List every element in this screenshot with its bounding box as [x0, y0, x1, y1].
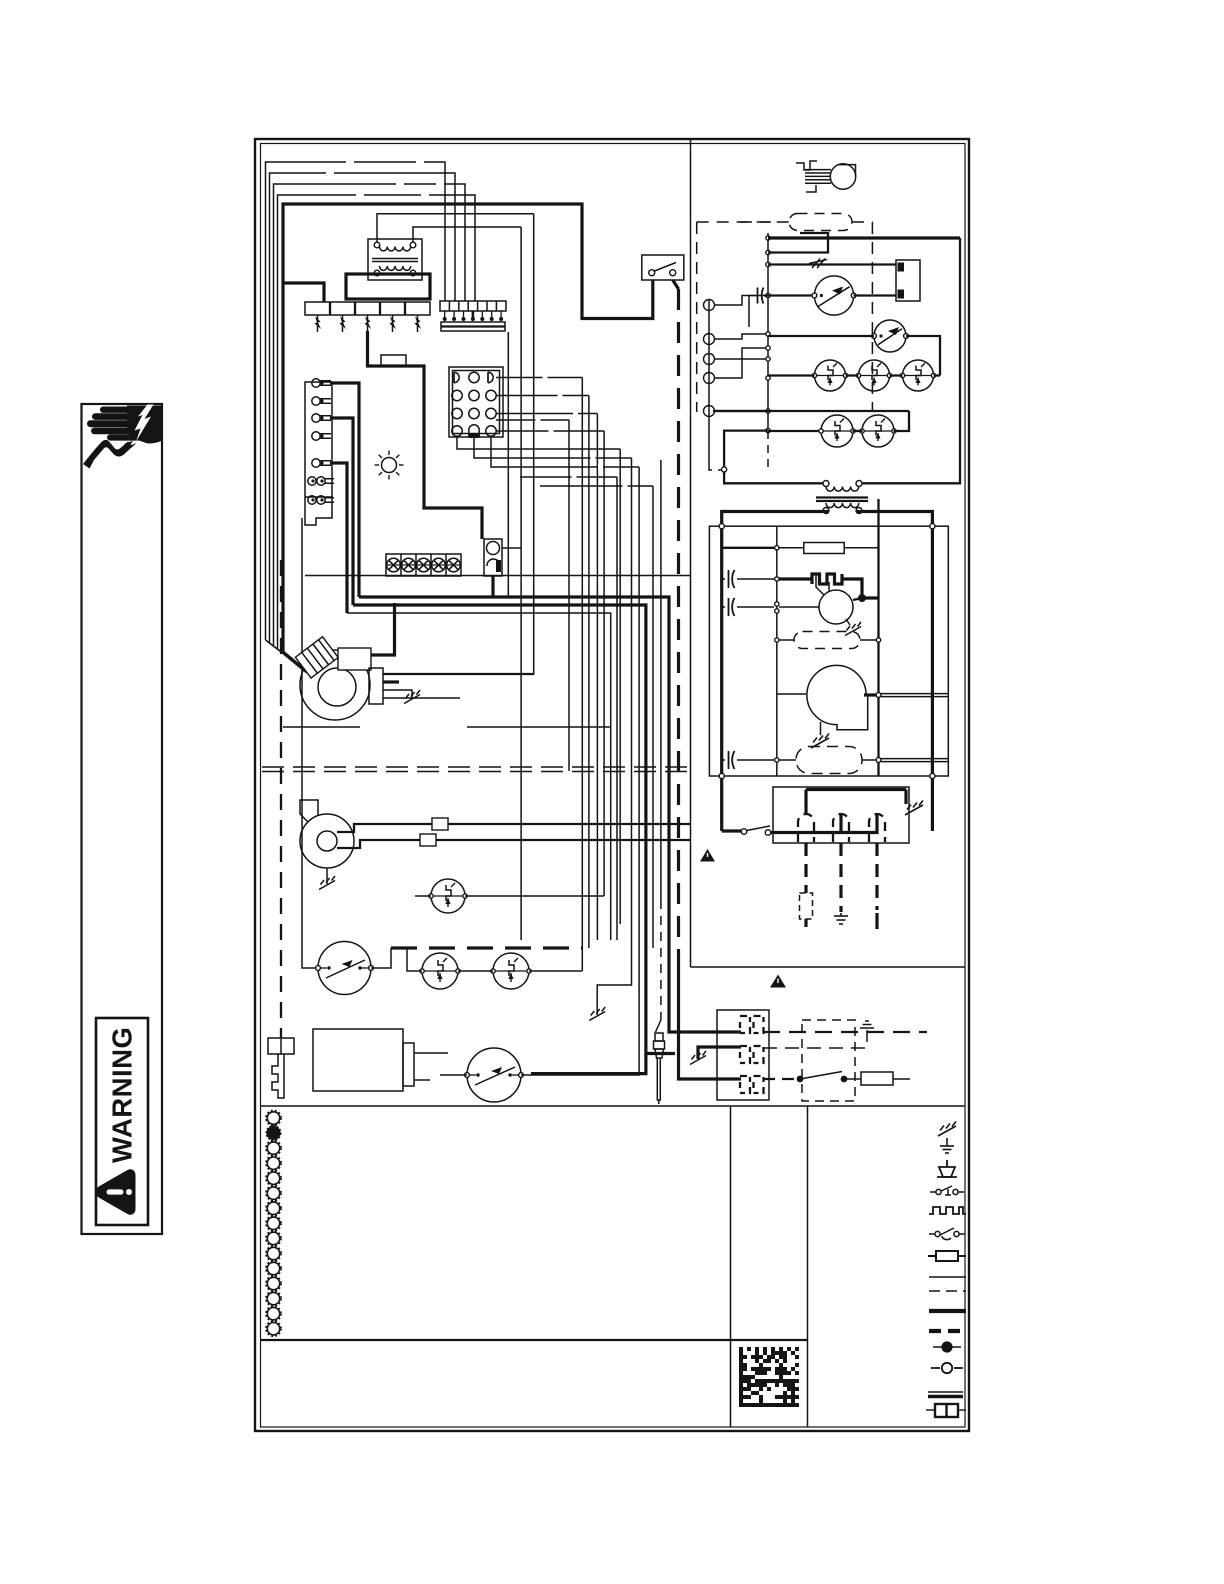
svg-text:WARNING: WARNING	[107, 1027, 138, 1163]
